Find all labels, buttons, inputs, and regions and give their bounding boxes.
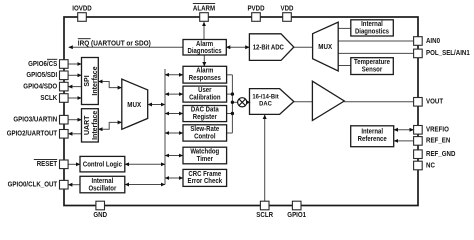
svg-text:Calibration: Calibration	[189, 95, 220, 102]
wire Alarm Diagnostics to Alarm Responses (arrow down)	[203, 55, 205, 66]
wire multiplier to DAC (arrow)	[247, 101, 250, 103]
block UART Interface	[82, 109, 99, 142]
svg-text:Control: Control	[194, 134, 215, 141]
block SPI Interface	[82, 58, 99, 105]
svg-text:SCLK: SCLK	[40, 95, 57, 102]
wire UART to GPIO2/UARTOUT (arrow at pin)	[68, 133, 81, 135]
wire GPIO3/UARTIN to UART	[68, 119, 81, 121]
pin GPIO1 (bottom)	[292, 201, 301, 210]
svg-text:GPIO4/SDO: GPIO4/SDO	[23, 83, 57, 90]
pin PVDD (top)	[252, 13, 261, 22]
summing bus vertical line	[231, 75, 233, 133]
wire bus to Slew-Rate Control (double arrow)	[165, 132, 183, 134]
pin GPIO2/UARTOUT (left)	[60, 130, 69, 139]
pin RESET (left)	[60, 160, 69, 169]
svg-text:Oscillator: Oscillator	[89, 185, 117, 192]
pin SCLR (bottom)	[260, 201, 269, 210]
pin GND (bottom)	[96, 201, 105, 210]
pin GPIO3/UARTIN (left)	[60, 115, 69, 124]
svg-text:Temperature: Temperature	[354, 59, 390, 66]
wire DAC tip to amplifier	[294, 101, 312, 103]
svg-text:ALARM: ALARM	[193, 5, 215, 12]
pin GPIO5/SDI (left)	[60, 71, 69, 80]
svg-text:GPIO2/UARTOUT: GPIO2/UARTOUT	[7, 131, 58, 138]
svg-text:Slew-Rate: Slew-Rate	[190, 126, 219, 133]
overline CS of GPIO6/CS	[47, 58, 57, 60]
svg-text:IOVDD: IOVDD	[72, 5, 92, 12]
wire bus to Alarm Responses (double arrow)	[165, 74, 183, 76]
svg-text:Diagnostics: Diagnostics	[188, 48, 222, 55]
adc 12-bit	[249, 34, 293, 61]
wire Internal Oscillator to GPIO0/CLK_OUT (arrow at pin)	[68, 184, 80, 186]
junction dot DAC Data row	[231, 112, 234, 115]
svg-text:MUX: MUX	[318, 42, 332, 51]
svg-text:VOUT: VOUT	[426, 99, 444, 106]
svg-text:Alarm: Alarm	[196, 68, 213, 75]
svg-text:GND: GND	[93, 212, 107, 219]
junction dot User Calibration row	[231, 92, 234, 95]
pin IOVDD (top)	[78, 13, 87, 22]
wire 12-bit ADC tip to right MUX	[294, 46, 313, 48]
svg-text:GPIO6/CS: GPIO6/CS	[28, 61, 57, 68]
wire Alarm Diagnostics to 12-bit ADC (double arrow)	[226, 46, 249, 48]
wire Control Logic to bus (double arrow)	[125, 163, 165, 165]
pin VREFIO (right)	[414, 126, 423, 135]
block Alarm Responses	[183, 66, 227, 83]
svg-text:Internal: Internal	[92, 178, 114, 185]
svg-text:Timer: Timer	[197, 156, 214, 163]
pin ALARM (top)	[200, 13, 209, 22]
wire SPI to GPIO4/SDO (arrow at pin)	[68, 86, 81, 88]
svg-text:POL_SEL/AIN1: POL_SEL/AIN1	[426, 50, 470, 57]
pin REF_GND (right)	[414, 150, 423, 159]
svg-text:Internal: Internal	[361, 21, 383, 28]
wire IRQ (UARTOUT or SDO) output arrow	[69, 46, 183, 48]
svg-text:SPI: SPI	[84, 75, 91, 86]
wire bus to CRC Frame Error Check (double arrow)	[165, 177, 183, 179]
svg-text:16-/14-Bit: 16-/14-Bit	[252, 93, 279, 100]
svg-text:DAC Data: DAC Data	[191, 107, 219, 114]
wire REF_EN to Internal Reference (arrow at box)	[394, 140, 413, 142]
wire GPIO5/SDI to SPI	[68, 74, 81, 76]
block Internal Oscillator	[80, 176, 125, 193]
pin POL_SEL/AIN1 (right)	[414, 49, 423, 58]
block Internal Reference	[351, 126, 394, 147]
overline ALARM	[193, 3, 215, 5]
wire SPI to left MUX (double arrow, elbow)	[99, 82, 122, 88]
wire bus to Watchdog Timer (double arrow)	[165, 155, 183, 157]
wire GPIO6/CS to SPI	[68, 63, 81, 65]
svg-text:GPIO0/CLK_OUT: GPIO0/CLK_OUT	[8, 182, 58, 189]
overline IRQ	[78, 38, 91, 40]
svg-text:Reference: Reference	[358, 136, 387, 143]
svg-text:Internal: Internal	[361, 129, 383, 136]
block DAC Data Register	[183, 106, 227, 122]
svg-text:GPIO5/SDI: GPIO5/SDI	[26, 72, 57, 79]
block Temperature Sensor	[351, 58, 394, 75]
svg-text:Diagnostics: Diagnostics	[355, 29, 389, 36]
block Internal Diagnostics	[351, 20, 394, 36]
pin GPIO6/CS (left)	[60, 60, 69, 69]
svg-text:12-Bit ADC: 12-Bit ADC	[253, 45, 284, 52]
svg-text:Control Logic: Control Logic	[83, 162, 122, 169]
wire right MUX to Internal Diagnostics	[338, 27, 350, 29]
svg-text:Error Check: Error Check	[188, 178, 223, 185]
pin VDD (top)	[283, 13, 292, 22]
wire Internal Oscillator to bus (double arrow)	[125, 184, 165, 186]
stub DAC Data Register to summing bus	[227, 113, 233, 115]
wire bus to DAC Data Register (double arrow)	[165, 113, 183, 115]
svg-text:REF_EN: REF_EN	[426, 138, 450, 145]
svg-text:User: User	[198, 87, 212, 94]
pin VOUT (right)	[414, 98, 423, 107]
block User Calibration	[183, 86, 227, 102]
svg-text:VDD: VDD	[281, 5, 294, 12]
svg-text:Sensor: Sensor	[362, 66, 383, 73]
svg-text:AIN0: AIN0	[426, 38, 440, 45]
svg-text:Alarm: Alarm	[196, 41, 213, 48]
wire Internal Reference to VREFIO (double arrow)	[394, 129, 414, 131]
pin GPIO4/SDO (left)	[60, 82, 69, 91]
wire left MUX to data bus (double arrow)	[148, 104, 165, 106]
chip outline border	[64, 17, 418, 206]
stub Alarm Responses to summing bus	[227, 74, 233, 76]
overline RESET	[34, 159, 57, 161]
data bus vertical line	[164, 69, 166, 185]
wire RESET to Control Logic	[68, 163, 80, 165]
block Watchdog Timer	[183, 147, 227, 164]
dac 16-/14-bit	[250, 89, 294, 115]
wire right MUX to POL_SEL/AIN1 pin	[338, 52, 413, 54]
wire ALARM pin to Alarm Diagnostics (arrow up)	[203, 22, 205, 39]
wire UART to left MUX (double arrow, elbow)	[99, 122, 122, 129]
svg-text:GPIO3/UARTIN: GPIO3/UARTIN	[13, 117, 57, 124]
svg-text:GPIO1: GPIO1	[287, 212, 306, 219]
svg-text:NC: NC	[426, 162, 435, 169]
pin AIN0 (right)	[414, 37, 423, 46]
svg-text:CRC Frame: CRC Frame	[188, 171, 221, 178]
svg-text:Interface: Interface	[92, 111, 99, 140]
svg-text:MUX: MUX	[127, 100, 141, 109]
block CRC Frame Error Check	[183, 169, 227, 186]
wire right MUX to AIN0 pin	[338, 40, 413, 42]
svg-text:REF_GND: REF_GND	[426, 151, 455, 158]
junction dot multiplier row	[231, 101, 234, 104]
svg-text:Interface: Interface	[92, 66, 99, 95]
pin GPIO0/CLK_OUT (left)	[60, 180, 69, 189]
pin NC (right)	[414, 161, 423, 170]
svg-text:PVDD: PVDD	[247, 5, 264, 12]
wire SCLK to SPI	[68, 97, 81, 99]
svg-text:Watchdog: Watchdog	[190, 149, 219, 156]
block Alarm Diagnostics	[183, 40, 226, 56]
wire bus to User Calibration (double arrow)	[165, 93, 183, 95]
block Slew-Rate Control	[183, 125, 227, 141]
wire right MUX to Temperature Sensor	[338, 65, 351, 67]
mux right (diagnostics select)	[313, 22, 339, 71]
wire SCLR to DAC bottom (arrow up)	[264, 115, 266, 201]
wire summing bus to multiplier node	[232, 101, 237, 103]
svg-text:Register: Register	[193, 114, 217, 121]
svg-text:RESET: RESET	[37, 161, 58, 168]
svg-text:VREFIO: VREFIO	[426, 127, 449, 134]
stub User Calibration to summing bus	[227, 93, 233, 95]
svg-text:IRQ (UARTOUT or SDO): IRQ (UARTOUT or SDO)	[78, 40, 151, 47]
svg-text:SCLR: SCLR	[256, 212, 273, 219]
pin SCLK (left)	[60, 94, 69, 103]
pin REF_EN (right)	[414, 137, 423, 146]
svg-text:UART: UART	[84, 115, 91, 135]
stub Slew-Rate Control to summing bus	[227, 132, 233, 134]
svg-text:Responses: Responses	[189, 75, 221, 82]
multiplier node (circle-X)	[238, 98, 247, 107]
svg-text:DAC: DAC	[259, 101, 272, 108]
wire amplifier to VOUT pin	[344, 101, 413, 103]
op-amp output buffer	[312, 81, 344, 120]
block Control Logic	[80, 156, 125, 172]
mux left (SPI/UART select)	[122, 79, 148, 129]
